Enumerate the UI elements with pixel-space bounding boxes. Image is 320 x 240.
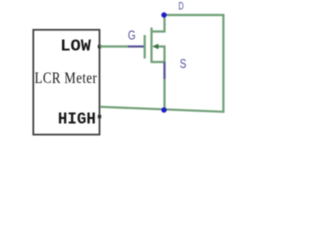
transistor Q1 gate plate	[144, 35, 146, 59]
transistor Q1 drain stub	[152, 15, 165, 32]
wire drain node to right	[164, 14, 225, 16]
wire source to bottom	[163, 79, 165, 110]
wire right side down	[222, 15, 224, 112]
junction dot at drain node D	[161, 12, 166, 17]
transistor Q1 body stub	[155, 47, 165, 63]
svg-text:S: S	[180, 58, 187, 72]
svg-text:LOW: LOW	[60, 38, 91, 57]
transistor Q1 channel bar	[150, 28, 152, 64]
LCR meter box	[33, 30, 99, 135]
svg-text:HIGH: HIGH	[58, 109, 96, 129]
junction dot at source node	[161, 107, 166, 112]
pin S lead	[163, 62, 165, 79]
svg-text:D: D	[178, 0, 184, 12]
transistor Q1 source stub	[152, 61, 165, 63]
wire LOW to gate	[100, 45, 128, 47]
svg-text:LCR Meter: LCR Meter	[35, 70, 98, 88]
svg-text:G: G	[128, 30, 136, 43]
pin G lead	[128, 45, 144, 47]
HIGH terminal tick	[98, 115, 101, 118]
wire bottom to HIGH	[100, 107, 225, 112]
LOW terminal tick	[98, 45, 101, 48]
transistor Q1 body arrow	[152, 44, 158, 49]
